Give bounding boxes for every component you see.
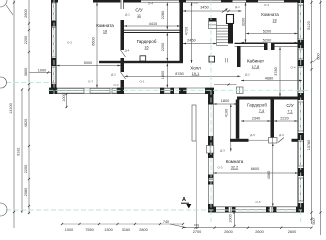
svg-text:О-3: О-3 bbox=[113, 83, 118, 87]
svg-text:О-2: О-2 bbox=[67, 41, 72, 45]
svg-text:2220: 2220 bbox=[280, 117, 288, 121]
svg-text:5200: 5200 bbox=[263, 29, 271, 33]
svg-text:Д-1: Д-1 bbox=[235, 5, 240, 9]
svg-text:О-3: О-3 bbox=[217, 166, 222, 170]
svg-text:4620: 4620 bbox=[24, 119, 28, 127]
svg-text:6600: 6600 bbox=[92, 37, 96, 45]
svg-text:11: 11 bbox=[137, 14, 141, 18]
svg-text:О-4: О-4 bbox=[192, 1, 197, 5]
svg-text:Комната: Комната bbox=[226, 159, 244, 164]
svg-text:7,4: 7,4 bbox=[259, 109, 264, 113]
svg-text:2200: 2200 bbox=[161, 43, 165, 51]
svg-text:Д-2: Д-2 bbox=[111, 73, 116, 77]
svg-text:О-1: О-1 bbox=[139, 80, 144, 84]
svg-text:1000: 1000 bbox=[38, 68, 46, 72]
svg-text:О-4: О-4 bbox=[290, 66, 295, 70]
svg-text:4100: 4100 bbox=[225, 109, 229, 117]
svg-text:О-4: О-4 bbox=[264, 3, 269, 7]
svg-text:4080: 4080 bbox=[267, 171, 271, 179]
svg-text:О-4: О-4 bbox=[148, 1, 153, 5]
svg-text:2450: 2450 bbox=[187, 38, 195, 42]
svg-text:17,8: 17,8 bbox=[252, 65, 259, 69]
svg-text:4680: 4680 bbox=[265, 76, 273, 80]
svg-text:1300: 1300 bbox=[104, 228, 112, 232]
svg-text:1000: 1000 bbox=[62, 93, 66, 101]
svg-text:С/У: С/У bbox=[286, 103, 294, 108]
svg-text:18: 18 bbox=[272, 19, 276, 23]
svg-text:4720: 4720 bbox=[184, 27, 188, 35]
svg-text:2600: 2600 bbox=[288, 230, 296, 234]
svg-text:7,1: 7,1 bbox=[287, 110, 292, 114]
svg-text:А: А bbox=[182, 197, 186, 203]
svg-text:2600: 2600 bbox=[224, 230, 232, 234]
svg-text:5120: 5120 bbox=[307, 21, 311, 29]
svg-text:4410: 4410 bbox=[149, 22, 157, 26]
svg-text:2080: 2080 bbox=[24, 188, 28, 196]
svg-text:9181: 9181 bbox=[17, 147, 21, 155]
svg-text:Д-5: Д-5 bbox=[250, 133, 255, 137]
svg-text:16: 16 bbox=[144, 46, 148, 50]
svg-text:2800: 2800 bbox=[139, 228, 147, 232]
svg-text:Холл: Холл bbox=[190, 66, 201, 71]
svg-text:740: 740 bbox=[163, 220, 169, 224]
svg-text:1000: 1000 bbox=[65, 228, 73, 232]
svg-text:3780: 3780 bbox=[274, 67, 278, 75]
svg-text:Д-3: Д-3 bbox=[220, 149, 225, 153]
svg-text:2200: 2200 bbox=[24, 165, 28, 173]
svg-text:8780: 8780 bbox=[175, 72, 183, 76]
svg-text:2280: 2280 bbox=[161, 11, 165, 19]
svg-text:Комната: Комната bbox=[261, 12, 279, 17]
svg-text:Кабинет: Кабинет bbox=[247, 59, 264, 64]
svg-text:Гардероб: Гардероб bbox=[137, 39, 157, 44]
svg-text:3160: 3160 bbox=[122, 228, 130, 232]
svg-text:2200: 2200 bbox=[24, 36, 28, 44]
svg-text:14100: 14100 bbox=[9, 103, 13, 114]
svg-text:Д-1: Д-1 bbox=[125, 13, 130, 17]
svg-text:О-5: О-5 bbox=[255, 200, 260, 204]
svg-text:5200: 5200 bbox=[263, 38, 271, 42]
svg-text:3200: 3200 bbox=[241, 18, 245, 26]
svg-text:3450: 3450 bbox=[200, 5, 208, 9]
svg-text:1800: 1800 bbox=[161, 71, 165, 79]
svg-text:5000: 5000 bbox=[84, 61, 92, 65]
svg-text:10780: 10780 bbox=[307, 140, 311, 151]
svg-text:2700: 2700 bbox=[193, 230, 201, 234]
svg-text:2340: 2340 bbox=[252, 117, 260, 121]
svg-text:32,2: 32,2 bbox=[231, 166, 238, 170]
svg-text:О-7: О-7 bbox=[88, 80, 93, 84]
svg-text:Д-4: Д-4 bbox=[125, 49, 130, 53]
svg-text:600: 600 bbox=[317, 53, 321, 59]
svg-text:7550: 7550 bbox=[85, 228, 93, 232]
svg-text:150: 150 bbox=[194, 223, 199, 227]
svg-text:1000: 1000 bbox=[228, 214, 232, 222]
svg-text:500: 500 bbox=[312, 218, 316, 224]
svg-text:1800: 1800 bbox=[221, 99, 229, 103]
svg-text:Д-3: Д-3 bbox=[279, 133, 284, 137]
svg-text:С/У: С/У bbox=[135, 8, 143, 13]
svg-text:6600: 6600 bbox=[251, 167, 259, 171]
svg-text:2600: 2600 bbox=[24, 9, 28, 17]
svg-text:3600: 3600 bbox=[24, 68, 28, 76]
svg-text:19,1: 19,1 bbox=[192, 72, 199, 76]
svg-text:Д-2: Д-2 bbox=[245, 73, 250, 77]
svg-text:2600: 2600 bbox=[255, 230, 263, 234]
svg-text:18: 18 bbox=[103, 30, 107, 34]
svg-text:Комната: Комната bbox=[96, 23, 114, 28]
svg-text:Гардероб: Гардероб bbox=[247, 103, 267, 108]
